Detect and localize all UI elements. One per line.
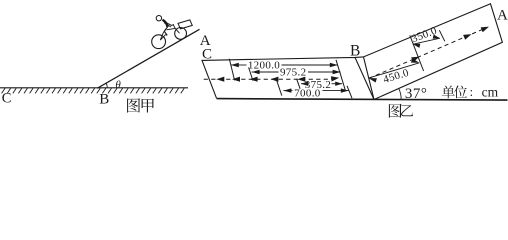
svg-text:1200.0: 1200.0: [248, 59, 280, 71]
dashed trajectory line on flat board: [204, 78, 336, 80]
angle arc at B: [106, 83, 107, 88]
trajectory top end arrow: [481, 27, 489, 33]
dimension 350.0: [413, 38, 440, 44]
svg-text:cm: cm: [482, 84, 499, 99]
dimension 700.0: [283, 90, 292, 92]
svg-text:B: B: [350, 42, 360, 59]
svg-text:975.2: 975.2: [280, 67, 307, 79]
caption 图甲: [127, 98, 140, 112]
svg-text:37°: 37°: [405, 86, 428, 102]
dimension 975.2: [252, 71, 279, 73]
tick through ball m2 (450.0 right / 350.0 left): [410, 35, 424, 71]
cyclist: carried box: [178, 20, 192, 29]
extension tick T2 (975.2 left): [249, 67, 253, 80]
37 degree arc: [399, 89, 401, 100]
svg-text:C: C: [2, 90, 12, 106]
svg-text:θ: θ: [115, 79, 121, 91]
svg-text:450.0: 450.0: [382, 67, 411, 86]
incline line B to A: [97, 29, 199, 88]
trajectory right end arrow: [331, 76, 339, 81]
cyclist: front wheel: [175, 28, 187, 40]
flat board outline (parallelogram C-B): [202, 57, 374, 100]
dimension 375.2: [301, 83, 305, 85]
svg-text:350.0: 350.0: [410, 25, 439, 46]
ball arrowheads on incline: [411, 57, 419, 63]
dimension 1200.0: [231, 64, 247, 66]
svg-text:700.0: 700.0: [294, 87, 321, 99]
long ground/base line (figure 乙): [217, 99, 508, 101]
extension tick T4 (375.2 left): [297, 79, 301, 89]
ball position arrowheads (pointing left): [216, 77, 224, 82]
dashed trajectory line on incline: [369, 28, 487, 79]
ground hatching: [2, 88, 185, 93]
ground line (figure 甲): [0, 87, 188, 89]
cyclist: bicycle frame: [160, 25, 179, 40]
unit note 单位：cm: [442, 86, 455, 99]
cyclist: body and limbs: [162, 20, 167, 27]
inclined board outline (B-A): [364, 4, 503, 100]
svg-text:A: A: [497, 8, 508, 24]
extension tick T3 (right, shared): [336, 60, 345, 90]
extension tick T1 (1200.0 left): [229, 59, 234, 81]
cyclist: rear wheel: [152, 35, 166, 49]
dimension 450.0: [369, 63, 420, 78]
extension tick 700.0 left: [277, 81, 282, 96]
svg-text::: :: [470, 84, 474, 99]
svg-text:C: C: [202, 47, 212, 63]
tick 350.0 right: [439, 30, 445, 41]
caption 图乙: [389, 104, 402, 118]
cyclist: head: [156, 16, 161, 21]
extension tick 700.0 right: [347, 86, 352, 98]
svg-text:B: B: [99, 91, 109, 107]
